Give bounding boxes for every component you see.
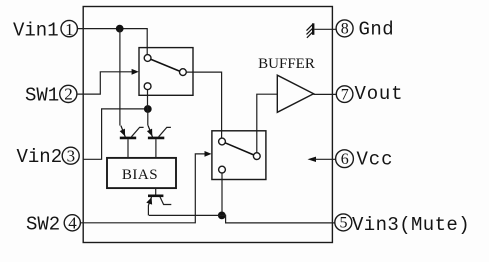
wire Vin2 pin to node B — [84, 109, 145, 159]
svg-text:Vin3(Mute): Vin3(Mute) — [352, 214, 470, 236]
wire node C to pin 5 — [222, 215, 335, 223]
ground symbol — [307, 23, 314, 38]
svg-text:7: 7 — [341, 86, 349, 103]
pin 5 circle — [335, 214, 352, 232]
svg-text:8: 8 — [341, 21, 349, 38]
svg-text:2: 2 — [64, 85, 73, 104]
wire node B down to Q2 emitter — [147, 109, 149, 126]
wire SW2 control path — [80, 154, 205, 223]
svg-text:3: 3 — [67, 146, 76, 165]
wire Vin1 pin to switch S1 input — [77, 29, 147, 55]
switch S2 — [212, 131, 266, 180]
svg-text:4: 4 — [68, 214, 77, 233]
pin 8 circle — [336, 20, 353, 38]
pin 4 circle — [64, 214, 80, 233]
switch S1 — [139, 48, 193, 96]
pin 6 circle — [336, 150, 354, 168]
svg-text:6: 6 — [341, 151, 349, 168]
svg-text:SW2: SW2 — [26, 213, 60, 235]
wire switch S1 output to switch S2 upper contact — [186, 72, 221, 138]
svg-text:BIAS: BIAS — [122, 167, 158, 183]
pin 1 circle — [61, 20, 77, 39]
wire Q3 emitter to node C — [149, 214, 222, 216]
svg-text:1: 1 — [65, 20, 74, 39]
svg-text:5: 5 — [340, 215, 348, 232]
transistor Q3 — [146, 188, 171, 215]
junction dot B — [144, 105, 152, 113]
wire switch S2 output up to buffer input — [257, 94, 277, 153]
Vcc arrow into chip — [308, 157, 336, 162]
transistor Q2 — [147, 126, 171, 158]
pin 2 circle — [60, 85, 77, 104]
wire SW1 control path — [77, 72, 132, 94]
pin 3 circle — [62, 146, 79, 165]
svg-text:Vin2: Vin2 — [17, 146, 63, 168]
arrowhead into switch S2 — [205, 151, 212, 157]
junction dot A (Vin1 branch) — [116, 25, 124, 33]
wire buffer output to pin 7 — [314, 93, 337, 95]
junction dot C — [218, 212, 226, 220]
wire Vin1 branch down to Q1 emitter — [119, 29, 121, 126]
IC outline box — [83, 7, 332, 243]
svg-text:SW1: SW1 — [25, 85, 59, 107]
wire switch S2 lower contact down to node C — [221, 173, 223, 216]
svg-text:Vcc: Vcc — [357, 149, 394, 171]
wire switch S1 lower contact to node B — [147, 89, 149, 109]
BIAS block — [107, 158, 176, 188]
svg-text:Vin1: Vin1 — [13, 19, 59, 41]
wire ground symbol to pin 8 — [314, 28, 336, 30]
buffer U1 — [258, 56, 315, 113]
arrowhead into switch S1 — [132, 69, 139, 75]
pin 7 circle — [336, 86, 353, 104]
svg-text:BUFFER: BUFFER — [258, 56, 315, 72]
svg-text:Gnd: Gnd — [359, 18, 395, 40]
transistor Q1 — [120, 126, 144, 158]
svg-text:Vout: Vout — [355, 83, 404, 105]
